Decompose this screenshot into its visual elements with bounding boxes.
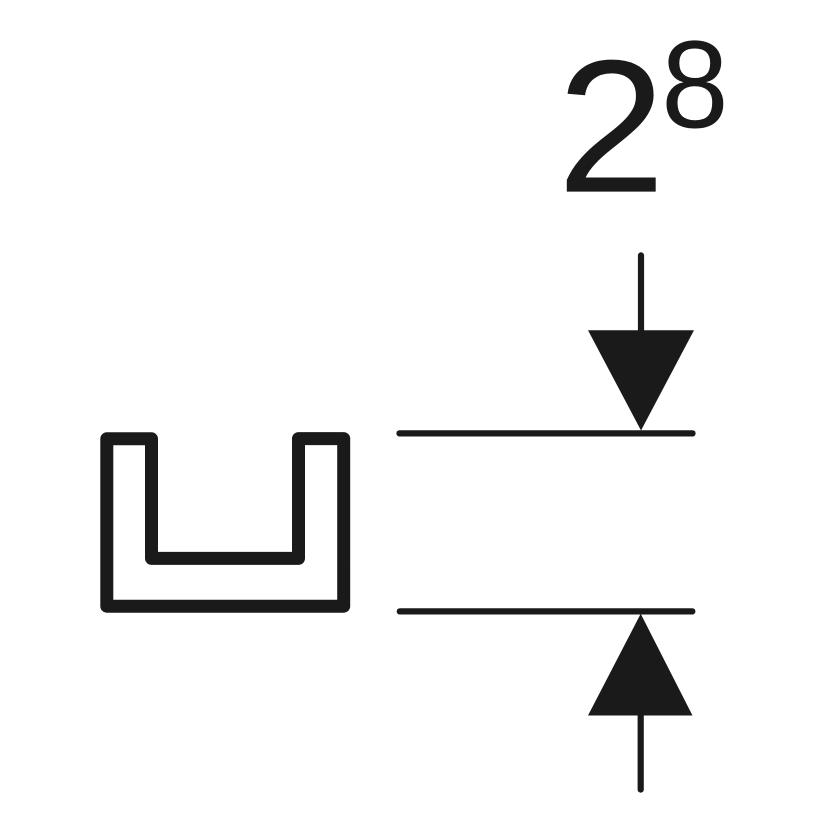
lower arrow head (pointing up) [588,614,693,716]
upper arrow head (pointing down) [588,330,694,430]
upper dimension line [400,430,693,436]
lower arrow shaft [638,713,644,790]
lower dimension line [400,608,693,614]
upper arrow shaft [638,255,644,340]
U-channel profile [107,439,344,607]
svg-text:2: 2 [557,20,665,232]
svg-text:8: 8 [661,16,728,155]
